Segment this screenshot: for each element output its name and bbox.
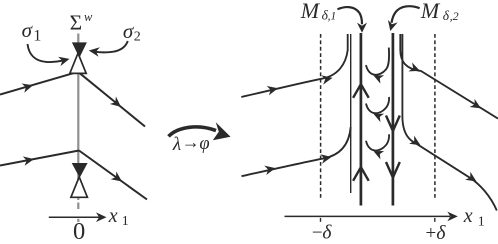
gray tick above origin label <box>77 219 79 222</box>
arrowhead on lower outgoing <box>111 171 125 185</box>
svg-text:→: → <box>182 132 200 152</box>
trajectory upper outgoing branch <box>78 72 145 127</box>
hook arrow 2 between manifolds <box>366 97 389 113</box>
thin invariant line left <box>350 34 352 193</box>
down arrow 2 on M_delta,2 <box>386 162 400 178</box>
white up triangle upper <box>70 53 86 73</box>
gray dash below lower triangle <box>77 203 79 210</box>
thick manifold M_delta,1 <box>360 33 363 206</box>
arrowhead 2 lower incoming <box>320 152 332 163</box>
svg-text:0: 0 <box>73 218 85 244</box>
dash below axis at -delta <box>320 218 322 222</box>
svg-text:δ: δ <box>436 223 446 244</box>
svg-text:1: 1 <box>33 28 41 45</box>
middle mapping arrow lambda to phi <box>169 127 217 136</box>
svg-text:δ: δ <box>322 222 332 243</box>
svg-text:,2: ,2 <box>450 9 459 23</box>
arrowhead 1 upper outgoing <box>408 63 421 76</box>
down arrow 1 on M_delta,2 <box>386 116 400 132</box>
black down triangle upper <box>72 42 87 57</box>
dashed line at +delta <box>434 34 436 199</box>
arrowhead on upper incoming <box>22 81 35 93</box>
arrowhead 1 lower outgoing <box>409 136 423 150</box>
curved arrow from sigma_2 to black triangle <box>95 41 128 52</box>
svg-text:M: M <box>300 0 321 23</box>
svg-text:Σ: Σ <box>70 11 83 35</box>
svg-text:1: 1 <box>122 214 129 229</box>
svg-text:λ: λ <box>172 134 181 155</box>
upper incoming trajectory (right panel) <box>241 34 347 97</box>
arrowhead on lower incoming <box>23 154 35 165</box>
switching line Sigma^w (gray vertical line) <box>77 34 79 201</box>
svg-text:−: − <box>312 222 323 243</box>
up arrow 1 on M_delta,1 <box>353 84 369 98</box>
trajectory lower incoming (left) <box>0 151 79 166</box>
dashed line at -delta <box>320 34 322 199</box>
svg-text:1: 1 <box>478 214 485 229</box>
lower incoming trajectory (right panel) <box>242 127 351 176</box>
svg-text:x: x <box>108 205 118 227</box>
svg-text:,1: ,1 <box>328 10 337 22</box>
lower outgoing trajectory (right panel) <box>402 34 496 211</box>
black down triangle lower <box>72 163 88 178</box>
x1 axis (left panel) <box>49 216 99 218</box>
curved arrow from sigma_1 to white triangle <box>28 44 63 62</box>
curved arrow from M_delta,1 <box>338 7 363 24</box>
arrowhead on upper outgoing <box>110 97 124 111</box>
x1 axis (right panel) <box>285 215 451 217</box>
hook arrow 3 between manifolds <box>366 134 389 150</box>
arrowhead 1 upper incoming <box>267 84 279 96</box>
arrowhead 1 lower incoming <box>264 163 276 175</box>
svg-text:φ: φ <box>199 134 209 154</box>
trajectory lower outgoing branch <box>79 151 147 200</box>
curved arrow from M_delta,2 <box>392 6 420 23</box>
white up triangle lower <box>71 177 88 197</box>
svg-text:2: 2 <box>134 30 141 45</box>
up arrow 2 on M_delta,1 <box>353 167 369 181</box>
arrowhead 2 upper outgoing <box>470 99 484 113</box>
arrowhead 2 upper incoming <box>321 73 333 84</box>
hook arrow 1 between manifolds <box>366 48 389 75</box>
svg-text:w: w <box>84 10 93 24</box>
svg-text:M: M <box>420 0 441 23</box>
thick manifold M_delta,2 <box>392 33 395 206</box>
svg-text:x: x <box>463 205 473 227</box>
svg-text:σ: σ <box>22 18 34 42</box>
svg-text:+: + <box>426 223 437 244</box>
arrowhead 2 lower outgoing <box>465 172 479 186</box>
dash below axis at +delta <box>434 218 436 222</box>
trajectory upper incoming (left) <box>0 72 78 95</box>
upper outgoing trajectory (right panel) <box>400 34 498 119</box>
